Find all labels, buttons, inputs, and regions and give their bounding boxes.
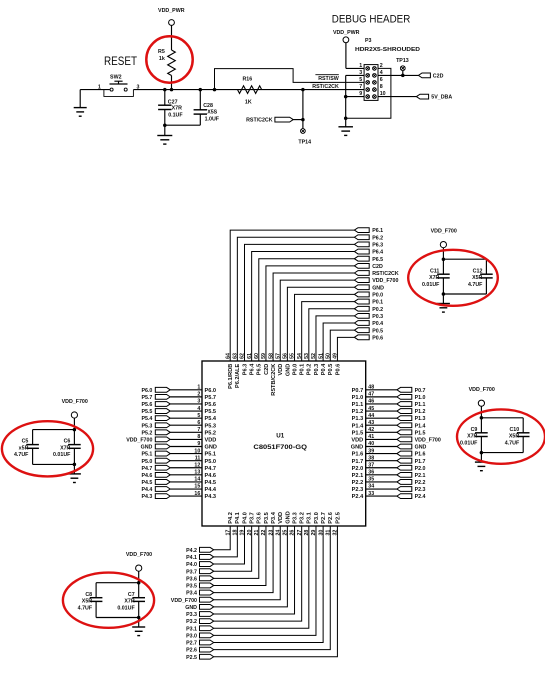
svg-text:R16: R16: [242, 77, 252, 83]
svg-text:8: 8: [197, 434, 200, 440]
svg-text:P3: P3: [365, 38, 372, 44]
ground (C5 C6): [68, 464, 81, 482]
svg-text:59: 59: [261, 353, 267, 359]
svg-text:P3.3: P3.3: [292, 512, 298, 524]
svg-text:X7R: X7R: [172, 106, 182, 112]
svg-text:VDD: VDD: [205, 438, 217, 444]
svg-text:P2.0: P2.0: [415, 466, 426, 472]
U1 pin 41 (VDD) wire and tag: [351, 434, 440, 443]
capacitor C28 1.0UF: [165, 90, 207, 126]
U1 pin 47 (P1.0) wire and tag: [352, 392, 426, 401]
svg-text:13: 13: [194, 470, 200, 476]
svg-text:55: 55: [290, 353, 296, 359]
svg-text:TP14: TP14: [298, 140, 311, 146]
wire P3 pin9 to ground rail: [346, 96, 364, 98]
wire top rail (C7 C8): [96, 581, 140, 598]
svg-text:VDD_F700: VDD_F700: [372, 278, 398, 284]
U1 pin 42 (P1.5) wire and tag: [352, 427, 426, 436]
svg-text:P2.3: P2.3: [415, 487, 426, 493]
svg-text:P2.6: P2.6: [186, 648, 197, 654]
svg-text:50: 50: [325, 353, 331, 359]
svg-text:22: 22: [261, 530, 267, 536]
svg-text:11: 11: [195, 455, 201, 461]
svg-text:4.7UF: 4.7UF: [78, 605, 93, 611]
label C28 values: [203, 103, 220, 122]
svg-text:P0.2: P0.2: [307, 364, 313, 376]
svg-text:RSTB/C2CK: RSTB/C2CK: [271, 364, 277, 396]
red highlight circle around R5: [146, 36, 192, 82]
U1 pin 35 (P2.2) wire and tag: [352, 477, 426, 486]
label C11 values: [422, 268, 440, 288]
U1 pin 60 (P6.5) fan wire and tag: [254, 256, 383, 375]
svg-text:P0.3: P0.3: [314, 364, 320, 376]
svg-text:DEBUG HEADER: DEBUG HEADER: [332, 14, 411, 26]
svg-text:P5.2: P5.2: [205, 430, 217, 436]
U1 pin 16 (P4.3) wire and tag: [141, 491, 216, 500]
svg-text:5: 5: [359, 77, 362, 83]
svg-text:54: 54: [297, 353, 303, 359]
capacitor C5 4.7UF: [26, 445, 39, 449]
U1 pin 50 (P0.5) fan wire and tag: [325, 328, 383, 375]
svg-text:U1: U1: [276, 432, 284, 439]
switch SW2 pushbutton: [104, 74, 133, 96]
svg-text:P4.5: P4.5: [141, 480, 152, 486]
svg-text:P1.0: P1.0: [352, 395, 364, 401]
svg-text:P3.5: P3.5: [264, 512, 270, 524]
U1 pin 13 (P4.6) wire and tag: [141, 470, 216, 479]
capacitor C9 0.01UF: [475, 433, 488, 437]
U1 pin 14 (P4.5) wire and tag: [141, 477, 216, 486]
svg-text:TP13: TP13: [396, 58, 409, 64]
svg-text:P3.6: P3.6: [186, 576, 197, 582]
wire bottom rail (C11 C12): [442, 278, 487, 296]
svg-text:P1.4: P1.4: [352, 423, 364, 429]
svg-text:VDD_F700: VDD_F700: [126, 552, 152, 558]
IC U1 C8051F700-GQ body: [202, 361, 366, 526]
svg-text:P2.7: P2.7: [186, 641, 197, 647]
U1 pin 54 (P0.1) fan wire and tag: [297, 299, 383, 375]
ground (left of SW2): [74, 90, 87, 117]
U1 pin 34 (P2.3) wire and tag: [352, 484, 426, 493]
svg-text:P2.3: P2.3: [352, 487, 364, 493]
svg-text:R5: R5: [158, 49, 165, 55]
U1 pin 4 (P5.5) wire and tag: [141, 406, 216, 415]
svg-text:23: 23: [268, 530, 274, 536]
svg-text:19: 19: [240, 530, 246, 536]
svg-text:GND: GND: [285, 511, 291, 523]
svg-text:P6.1/RDB: P6.1/RDB: [228, 364, 234, 389]
wire top rail (C11 C12): [442, 257, 487, 274]
svg-text:C9: C9: [471, 427, 478, 433]
svg-text:P1.4: P1.4: [415, 423, 426, 429]
svg-text:15: 15: [194, 484, 200, 490]
U1 pin 17 (P4.2) fan wire and tag: [186, 512, 234, 554]
svg-text:P4.3: P4.3: [205, 494, 217, 500]
wire bottom rail (C5 C6): [33, 448, 77, 466]
svg-text:P4.0: P4.0: [186, 562, 197, 568]
label C12 values: [468, 268, 483, 288]
U1 pin 30 (P2.7) fan wire and tag: [186, 512, 327, 646]
svg-text:P2.1: P2.1: [352, 473, 364, 479]
label C8 values: [78, 592, 93, 612]
svg-text:16: 16: [194, 491, 200, 497]
svg-text:45: 45: [368, 406, 374, 412]
svg-text:VDD_F700: VDD_F700: [415, 438, 441, 444]
svg-text:P0.0: P0.0: [372, 293, 383, 299]
U1 pin 51 (P0.4) fan wire and tag: [318, 321, 383, 376]
svg-text:P0.4: P0.4: [372, 321, 383, 327]
wire SW2 pin3 to header pin7 (RST net): [133, 88, 364, 92]
svg-text:P1.0: P1.0: [415, 395, 426, 401]
svg-text:VDD_F700: VDD_F700: [171, 598, 197, 604]
capacitor C7 0.01UF: [132, 598, 145, 602]
svg-text:8: 8: [380, 84, 383, 90]
svg-text:P6.1: P6.1: [372, 228, 383, 234]
U1 pin 59 (C2D) fan wire and tag: [261, 263, 383, 374]
svg-text:GND: GND: [415, 445, 427, 451]
U1 pin 24 (VDD) fan wire and tag: [171, 512, 284, 604]
svg-text:61: 61: [247, 353, 253, 359]
capacitor C6 0.01UF: [68, 445, 81, 449]
svg-text:P4.4: P4.4: [141, 487, 152, 493]
wire P3 pin3 to ground rail: [344, 75, 364, 126]
U1 pin 58 (RSTB/C2CK) fan wire and tag: [268, 271, 399, 396]
U1 pin 9 (GND) wire and tag: [141, 441, 217, 450]
svg-text:4.7UF: 4.7UF: [468, 282, 483, 288]
svg-text:37: 37: [368, 462, 374, 468]
svg-text:P5.5: P5.5: [141, 409, 152, 415]
svg-text:P1.2: P1.2: [415, 409, 426, 415]
svg-text:1K: 1K: [245, 100, 252, 106]
svg-text:P3.1: P3.1: [307, 512, 313, 524]
svg-text:4.7UF: 4.7UF: [505, 440, 520, 446]
svg-text:0.01UF: 0.01UF: [53, 452, 71, 458]
svg-text:X7R: X7R: [124, 598, 134, 604]
svg-text:P3.2: P3.2: [186, 619, 197, 625]
svg-text:35: 35: [368, 477, 374, 483]
testpoint TP14: [298, 129, 311, 146]
svg-text:6: 6: [197, 420, 200, 426]
svg-text:VDD_F700: VDD_F700: [469, 387, 495, 393]
pin number 3 of SW2: [137, 84, 140, 90]
svg-text:57: 57: [275, 353, 281, 359]
svg-text:P1.6: P1.6: [415, 452, 426, 458]
wire TP14 branch: [301, 90, 305, 129]
svg-text:P4.3: P4.3: [141, 494, 152, 500]
svg-text:VDD_F700: VDD_F700: [126, 438, 152, 444]
U1 pin 55 (P0.0) fan wire and tag: [290, 292, 383, 375]
svg-text:0.01UF: 0.01UF: [460, 440, 478, 446]
svg-text:P3.2: P3.2: [300, 512, 306, 524]
svg-text:41: 41: [368, 434, 374, 440]
svg-text:GND: GND: [351, 445, 363, 451]
U1 pin 21 (P3.6) fan wire and tag: [186, 512, 263, 582]
svg-text:17: 17: [225, 530, 231, 536]
svg-text:C27: C27: [168, 99, 178, 105]
title DEBUG HEADER: [332, 14, 411, 26]
svg-text:VDD_F700: VDD_F700: [62, 399, 88, 405]
pin numbers P3 right column: [380, 63, 386, 97]
svg-text:53: 53: [304, 353, 310, 359]
svg-text:RST/C2CK: RST/C2CK: [372, 271, 399, 277]
capacitor C12 4.7UF: [480, 274, 493, 278]
svg-text:P4.2: P4.2: [186, 548, 197, 554]
testpoint TP13: [396, 58, 409, 75]
label C7 values: [117, 592, 135, 612]
svg-text:RST/C2CK: RST/C2CK: [246, 118, 273, 124]
svg-text:P6.3: P6.3: [242, 364, 248, 376]
label C5 values: [14, 439, 29, 459]
wire ground to SW2 pin 1: [80, 89, 110, 91]
ground (C9 C10): [475, 453, 488, 471]
svg-text:C6: C6: [64, 439, 71, 445]
U1 pin 48 (P0.7) wire and tag: [352, 385, 426, 394]
svg-text:49: 49: [333, 353, 339, 359]
U1 pin 29 (P3.0) fan wire and tag: [186, 512, 320, 639]
label C27 values: [168, 99, 184, 118]
ground (C7 C8): [132, 618, 145, 636]
svg-text:P0.0: P0.0: [292, 364, 298, 376]
resistor R5 1k: [168, 50, 176, 90]
svg-text:0.1UF: 0.1UF: [168, 113, 183, 119]
svg-text:21: 21: [254, 530, 260, 536]
svg-text:P3.4: P3.4: [186, 591, 197, 597]
svg-text:7: 7: [197, 427, 200, 433]
svg-text:7: 7: [359, 84, 362, 90]
svg-text:40: 40: [368, 441, 374, 447]
svg-text:P4.2: P4.2: [228, 512, 234, 524]
svg-text:P5.3: P5.3: [141, 423, 152, 429]
svg-text:P4.0: P4.0: [242, 512, 248, 524]
label C10 values: [505, 427, 520, 447]
svg-text:51: 51: [318, 353, 324, 359]
U1 pin 10 (P5.1) wire and tag: [141, 448, 216, 457]
svg-text:P5.1: P5.1: [205, 452, 217, 458]
svg-text:X7R: X7R: [429, 275, 439, 281]
svg-text:18: 18: [233, 530, 239, 536]
wire top rail (C5 C6): [33, 428, 77, 445]
svg-text:P5.6: P5.6: [205, 402, 217, 408]
svg-text:30: 30: [318, 530, 324, 536]
svg-text:P6.5: P6.5: [257, 364, 263, 376]
svg-text:P0.4: P0.4: [321, 363, 327, 375]
svg-text:12: 12: [194, 462, 200, 468]
ground (C11 C12): [437, 294, 450, 312]
svg-text:4.7UF: 4.7UF: [14, 452, 29, 458]
svg-text:C5: C5: [22, 439, 29, 445]
svg-text:5: 5: [197, 413, 200, 419]
svg-text:24: 24: [275, 530, 281, 536]
svg-text:X5R: X5R: [472, 275, 482, 281]
svg-text:VDD_PWR: VDD_PWR: [158, 8, 185, 14]
power symbol VDD_F700 (C11 C12): [431, 229, 457, 260]
svg-text:VDD_F700: VDD_F700: [431, 229, 457, 235]
svg-text:GND: GND: [372, 285, 384, 291]
svg-text:34: 34: [368, 484, 374, 490]
U1 pin 20 (P3.7) fan wire and tag: [186, 512, 255, 575]
U1 pin 26 (P3.3) fan wire and tag: [186, 512, 298, 618]
svg-text:RST/C2CK: RST/C2CK: [312, 84, 339, 90]
capacitor C8 4.7UF: [90, 598, 103, 602]
svg-text:P4.4: P4.4: [205, 487, 217, 493]
ground (below C27): [157, 125, 172, 144]
U1 pin 46 (P1.1) wire and tag: [352, 399, 426, 408]
svg-text:48: 48: [368, 385, 374, 391]
svg-text:9: 9: [197, 441, 200, 447]
label C9 values: [460, 427, 478, 447]
svg-text:GND: GND: [185, 605, 197, 611]
junction node C27/C28 ground: [163, 123, 167, 127]
svg-text:P1.2: P1.2: [352, 409, 364, 415]
wire VDD to P3 pin1: [346, 67, 364, 69]
svg-text:x5R: x5R: [19, 445, 29, 451]
svg-text:P2.7: P2.7: [321, 512, 327, 524]
svg-text:VDD: VDD: [278, 512, 284, 524]
svg-text:47: 47: [368, 392, 374, 398]
svg-text:31: 31: [325, 530, 331, 536]
U1 pin 12 (P4.7) wire and tag: [141, 462, 216, 471]
svg-text:P5.6: P5.6: [141, 402, 152, 408]
U1 pin 11 (P5.0) wire and tag: [141, 455, 216, 464]
svg-text:P5.2: P5.2: [141, 430, 152, 436]
svg-text:P4.1: P4.1: [186, 555, 197, 561]
svg-text:4: 4: [197, 406, 200, 412]
svg-text:28: 28: [304, 530, 310, 536]
red highlight ellipse (C9 C10): [457, 409, 545, 463]
U1 pin 1 (P6.0) wire and tag: [141, 385, 216, 394]
U1 pin 3 (P5.6) wire and tag: [141, 399, 216, 408]
svg-text:P6.2: P6.2: [372, 235, 383, 241]
wire P3 pin10 to 5V_DBA: [378, 96, 416, 98]
U1 pin 32 (P2.5) fan wire and tag: [186, 512, 341, 661]
svg-text:0.01UF: 0.01UF: [117, 605, 135, 611]
svg-text:1.0UF: 1.0UF: [205, 116, 220, 122]
svg-text:C12: C12: [473, 268, 483, 274]
U1 pin 62 (P6.3) fan wire and tag: [240, 242, 383, 375]
svg-text:38: 38: [368, 455, 374, 461]
svg-text:33: 33: [368, 491, 374, 497]
svg-text:P1.5: P1.5: [415, 430, 426, 436]
svg-text:X5S: X5S: [207, 110, 217, 116]
U1 pin 23 (P3.4) fan wire and tag: [186, 511, 277, 596]
svg-text:P5.0: P5.0: [141, 459, 152, 465]
svg-text:P1.7: P1.7: [415, 459, 426, 465]
svg-text:RST/SW: RST/SW: [318, 76, 339, 82]
net label RST/SW (overlined): [315, 75, 338, 83]
svg-text:SW2: SW2: [110, 74, 122, 80]
svg-text:GND: GND: [205, 445, 217, 451]
svg-text:27: 27: [297, 530, 303, 536]
svg-text:P5.5: P5.5: [205, 409, 217, 415]
svg-text:P1.1: P1.1: [352, 402, 364, 408]
svg-text:1: 1: [359, 63, 362, 69]
wire bottom rail (C7 C8): [96, 601, 140, 619]
label R5 value: [158, 49, 165, 62]
svg-text:P5.3: P5.3: [205, 423, 217, 429]
svg-text:P6.4: P6.4: [372, 250, 383, 256]
svg-text:P2.0: P2.0: [352, 466, 364, 472]
svg-text:X7R: X7R: [467, 434, 477, 440]
U1 pin 38 (P1.7) wire and tag: [352, 455, 426, 464]
U1 pin 56 (GND) fan wire and tag: [283, 285, 385, 376]
power symbol VDD_F700 (C7 C8): [126, 552, 152, 583]
svg-text:X5R: X5R: [82, 598, 92, 604]
svg-text:0.01UF: 0.01UF: [422, 282, 440, 288]
svg-text:C7: C7: [128, 592, 135, 598]
connector P3 HDR2X5-SHROUDED: [355, 38, 420, 100]
U1 pin 40 (GND) wire and tag: [351, 441, 427, 450]
svg-text:P2.5: P2.5: [335, 512, 341, 524]
svg-text:64: 64: [225, 353, 231, 359]
U1 pin 27 (P3.2) fan wire and tag: [186, 512, 305, 625]
svg-text:39: 39: [368, 448, 374, 454]
svg-text:C2D: C2D: [372, 264, 383, 270]
U1 pin 36 (P2.1) wire and tag: [352, 470, 426, 479]
svg-text:P2.4: P2.4: [352, 494, 364, 500]
svg-text:P0.7: P0.7: [352, 388, 364, 394]
power symbol VDD_PWR (reset pull-up): [158, 8, 185, 50]
svg-text:P0.5: P0.5: [328, 364, 334, 376]
svg-text:62: 62: [240, 353, 246, 359]
red highlight ellipse (C11 C12): [408, 250, 498, 306]
svg-text:P6.2/ALE: P6.2/ALE: [235, 363, 241, 388]
U1 pin 8 (VDD) wire and tag: [126, 434, 216, 443]
svg-text:P2.2: P2.2: [415, 480, 426, 486]
offpage tag 5V_DBA: [416, 94, 452, 101]
offpage tag RST/C2CK: [246, 117, 303, 124]
U1 pin 7 (P5.2) wire and tag: [141, 427, 216, 436]
svg-text:1: 1: [98, 84, 101, 90]
svg-text:C8051F700-GQ: C8051F700-GQ: [253, 444, 307, 451]
svg-text:X7R: X7R: [60, 445, 70, 451]
svg-text:P3.5: P3.5: [186, 584, 197, 590]
svg-text:P5.4: P5.4: [205, 416, 217, 422]
label C6 values: [53, 439, 71, 459]
svg-text:P1.5: P1.5: [352, 430, 364, 436]
offpage tag C2D: [418, 73, 443, 80]
svg-text:1: 1: [197, 385, 200, 391]
svg-text:P4.1: P4.1: [235, 512, 241, 524]
svg-text:P0.6: P0.6: [372, 335, 383, 341]
resistor R16 1K: [238, 86, 262, 94]
U1 pin 28 (P3.1) fan wire and tag: [186, 512, 313, 632]
svg-text:P3.7: P3.7: [250, 512, 256, 524]
svg-text:P5.7: P5.7: [205, 395, 217, 401]
U1 pin 45 (P1.2) wire and tag: [352, 406, 426, 415]
svg-text:P1.1: P1.1: [415, 402, 426, 408]
U1 pin 5 (P5.4) wire and tag: [141, 413, 216, 422]
red highlight ellipse (C5 C6): [2, 421, 93, 476]
svg-text:GND: GND: [285, 364, 291, 376]
U1 pin 64 (P6.1/RDB) fan wire and tag: [225, 228, 383, 389]
svg-text:P4.7: P4.7: [205, 466, 217, 472]
svg-text:36: 36: [368, 470, 374, 476]
ground (below P3): [338, 127, 353, 136]
svg-text:63: 63: [233, 353, 239, 359]
svg-text:10: 10: [194, 448, 200, 454]
svg-text:26: 26: [290, 530, 296, 536]
svg-text:P3.0: P3.0: [186, 633, 197, 639]
svg-text:HDR2X5-SHROUDED: HDR2X5-SHROUDED: [355, 47, 420, 53]
svg-text:6: 6: [380, 77, 383, 83]
svg-text:P0.1: P0.1: [300, 364, 306, 376]
U1 pin 39 (P1.6) wire and tag: [352, 448, 426, 457]
svg-text:P6.3: P6.3: [372, 242, 383, 248]
capacitor C27 0.1UF: [158, 90, 171, 126]
U1 pin 63 (P6.2/ALE) fan wire and tag: [233, 235, 384, 388]
svg-text:C2D: C2D: [433, 74, 444, 80]
svg-text:20: 20: [247, 530, 253, 536]
